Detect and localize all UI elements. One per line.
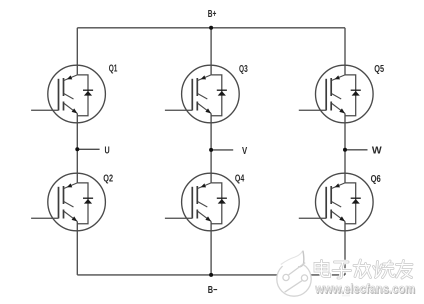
svg-text:B+: B+ [208,9,217,20]
transistor Q4 [165,173,239,231]
transistor Q2 [31,173,105,231]
wire: B+ top bus [77,27,345,29]
wire: middle column collector of Q3 [210,28,212,75]
wire: middle column Q4 emitter to B- bus [210,221,212,275]
node U junction dot [75,147,79,151]
svg-text:U: U [105,145,110,156]
watermark tile fragment below [342,295,350,297]
svg-text:B−: B− [208,285,218,296]
wire: node W stub [345,149,368,151]
wire: node V stub [211,149,233,151]
watermark logo wire diagonals [285,263,306,293]
svg-text:Q6: Q6 [371,174,382,185]
wire: node U stub [77,148,99,150]
wire: left column Q1 emitter to Q2 collector (node U) [76,113,78,182]
svg-text:V: V [242,146,247,157]
wire: left column Q2 emitter to B- bus [76,221,78,275]
transistor Q1 [31,65,105,123]
watermark logo terminal dots [283,274,289,280]
transistor Q6 [299,173,373,231]
wire: left column collector of Q1 [76,28,78,75]
svg-text:Q4: Q4 [235,174,245,185]
wire: right column collector of Q5 [344,28,346,75]
wire: right column Q5 emitter to Q6 collector (node W) [344,113,346,182]
svg-text:www.elecfans.com: www.elecfans.com [314,281,415,296]
svg-text:W: W [372,146,382,157]
svg-text:Q1: Q1 [109,64,118,75]
transistor Q5 [299,65,373,123]
watermark logo circle [277,251,311,296]
svg-text:Q3: Q3 [239,64,248,75]
node V junction dot [209,148,213,152]
wire: B- bottom bus [77,274,345,276]
watermark url www.elecfans.com [314,280,416,296]
node W junction dot [343,148,347,152]
wire: right column Q6 emitter to B- bus [344,221,346,275]
node B+ junction dot [209,26,213,30]
transistor Q3 [165,65,239,123]
svg-text:Q5: Q5 [374,64,384,75]
wire: middle column Q3 emitter to Q4 collector (node V) [210,113,212,182]
watermark logo leaf swoosh [281,251,304,267]
svg-text:Q2: Q2 [103,174,113,185]
node B- junction dot [209,273,213,277]
